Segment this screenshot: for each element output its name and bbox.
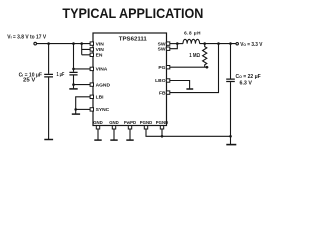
svg-text:6.8 μH: 6.8 μH — [184, 31, 201, 36]
wire input rail — [37, 43, 90, 45]
ground AGND — [69, 85, 77, 89]
capacitor C3 CO 22uF — [226, 44, 235, 137]
svg-text:VIN: VIN — [96, 41, 105, 47]
junction dot FB riser — [217, 42, 220, 45]
junction dot rail-C1 — [47, 42, 50, 45]
pin LBI — [90, 95, 93, 98]
capacitor C1 CI 10uF — [44, 44, 53, 140]
svg-text:SYNC: SYNC — [96, 107, 110, 113]
pin GND 1 — [96, 126, 99, 129]
ground SYNC — [72, 109, 80, 114]
junction dot PG-resistor — [206, 66, 209, 69]
junction dot AGND node — [72, 83, 75, 86]
wire output rail — [200, 43, 236, 45]
junction dot VINA tap — [72, 68, 75, 71]
ground CI — [44, 139, 53, 141]
svg-text:GND: GND — [93, 120, 103, 125]
svg-text:VIN: VIN — [96, 47, 105, 53]
wire PGND net — [146, 129, 231, 136]
pin PwPD — [128, 126, 131, 129]
svg-text:GND: GND — [109, 120, 119, 125]
svg-text:PG: PG — [158, 65, 165, 71]
wire LBI — [76, 97, 90, 110]
svg-text:FB: FB — [159, 90, 166, 96]
capacitor C2 1uF — [69, 44, 77, 85]
pin VINA — [90, 67, 93, 70]
op-amp U1 TPS62111 IC body — [93, 33, 167, 126]
node VO output terminal — [236, 43, 238, 45]
svg-text:TPS62111: TPS62111 — [119, 37, 147, 43]
junction dot PGND2 — [161, 135, 164, 138]
junction dot SW join — [176, 42, 179, 45]
junction dot rail-C2/VINA — [72, 42, 75, 45]
pin VIN 1 — [90, 42, 93, 45]
wire VIN2/EN bracket — [82, 44, 90, 55]
node VI input terminal — [34, 42, 37, 45]
junction dot resistor top — [203, 42, 206, 45]
svg-text:EN: EN — [96, 53, 103, 59]
svg-text:6.3 V: 6.3 V — [240, 80, 253, 86]
pin PGND 2 — [160, 126, 163, 129]
wire FB — [170, 44, 219, 93]
ground GND pin 2 — [110, 129, 117, 140]
ground output — [226, 136, 236, 144]
wire AGND — [74, 84, 91, 86]
pin FB — [166, 91, 169, 94]
svg-text:25 V: 25 V — [23, 77, 36, 83]
pin SYNC — [90, 108, 93, 111]
ground GND pin 1 — [94, 129, 101, 140]
svg-text:TYPICAL APPLICATION: TYPICAL APPLICATION — [62, 5, 203, 21]
ground LBO — [186, 88, 193, 90]
svg-text:1 MΩ: 1 MΩ — [189, 53, 200, 59]
svg-text:LBI: LBI — [96, 95, 105, 101]
label CO = 22 uF 6.3 V — [236, 74, 261, 86]
wire PG — [170, 66, 209, 68]
svg-text:PwPD: PwPD — [124, 120, 136, 125]
label CI = 10 uF 25 V — [19, 72, 42, 83]
svg-text:PGND: PGND — [156, 120, 168, 125]
svg-text:VI = 3.8 V to 17 V: VI = 3.8 V to 17 V — [7, 35, 46, 41]
svg-text:1 μF: 1 μF — [57, 72, 65, 78]
junction dot rail-VIN/EN bracket — [80, 42, 83, 45]
svg-text:SW: SW — [158, 41, 166, 47]
pin VIN 2 — [90, 48, 93, 51]
pin EN — [90, 53, 93, 56]
wire VINA — [74, 68, 91, 70]
svg-text:PGND: PGND — [140, 120, 152, 125]
resistor R1 1 MOhm — [203, 44, 207, 68]
wire SW bottom jog — [170, 44, 178, 49]
pin PGND 1 — [144, 126, 147, 129]
pin PG — [166, 66, 169, 69]
inductor L1 6.8uH — [183, 39, 200, 43]
pin AGND — [90, 83, 93, 86]
junction dot CO ground node — [229, 135, 232, 138]
pin GND 2 — [112, 126, 115, 129]
svg-text:CO = 22 μF: CO = 22 μF — [236, 74, 261, 80]
pin LBO — [166, 79, 169, 82]
svg-text:VO = 3.3 V: VO = 3.3 V — [240, 42, 263, 48]
junction dot SYNC/LBI ground node — [74, 108, 77, 111]
svg-text:LBO: LBO — [155, 78, 166, 84]
pin SW 2 — [166, 47, 169, 50]
svg-text:VINA: VINA — [96, 67, 108, 73]
svg-text:SW: SW — [158, 46, 166, 52]
svg-text:AGND: AGND — [96, 82, 111, 88]
wire SW top — [170, 43, 183, 45]
wire LBO — [170, 81, 190, 89]
wire SYNC — [76, 108, 90, 110]
ground PwPD pin — [126, 129, 133, 140]
junction dot CO top — [229, 42, 232, 45]
pin SW 1 — [166, 42, 169, 45]
